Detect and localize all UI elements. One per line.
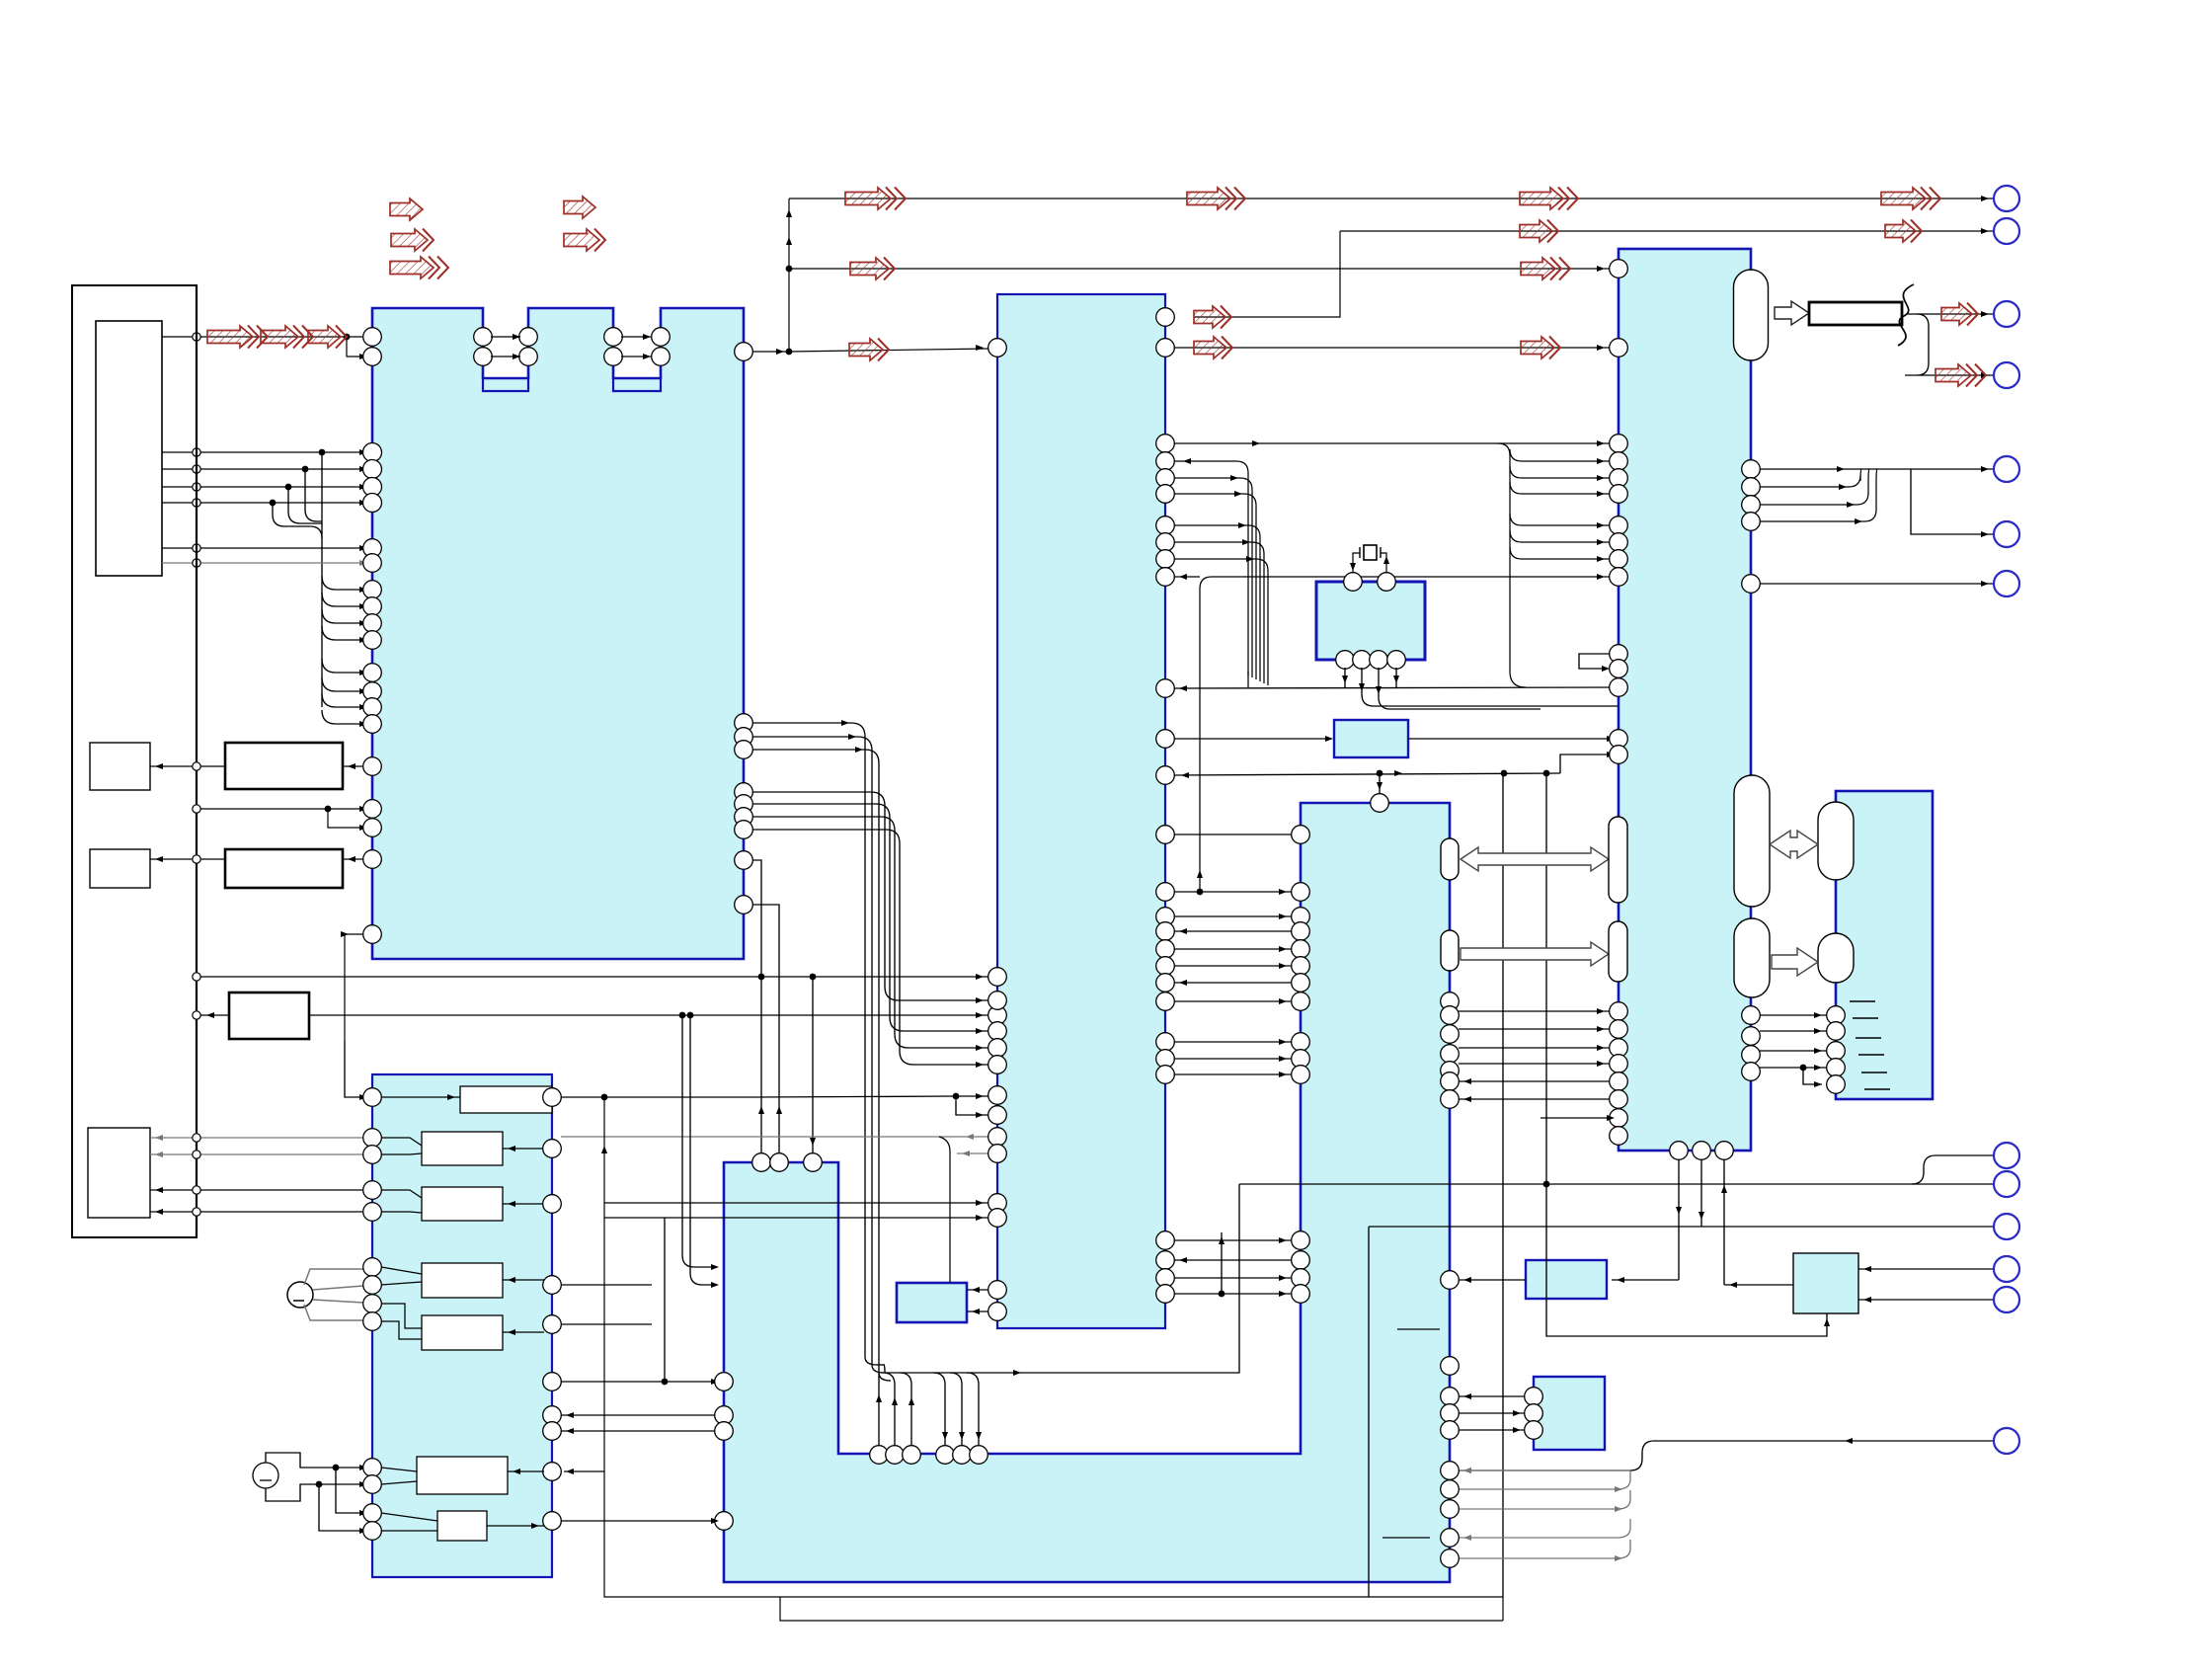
wire TP 1170/1199: [1239, 1155, 1994, 1187]
IC U1 servo/RF block body: [372, 308, 744, 959]
U3 left pins 662/677/696: [1610, 645, 1628, 697]
U2 left pins 989/1028: [988, 968, 1007, 1025]
U2 right pin 697: [1156, 679, 1175, 698]
bottom bus y1617: [564, 1097, 1503, 1597]
U1 right pins cluster1: [735, 714, 753, 759]
U1 left pins 819/838: [363, 800, 382, 837]
W6 wires: [381, 1468, 544, 1484]
AC source SG2: [253, 1453, 367, 1534]
U3 capsule right1: [1734, 775, 1770, 907]
echo fan to U1 group2/3: [322, 576, 367, 727]
U2 right bundle S-curves down: [1174, 458, 1268, 685]
U1 top pins pair1: [363, 328, 382, 366]
legend arrow L1: [390, 199, 423, 220]
U1 left pins group2: [363, 581, 382, 650]
U5 internal box W6: [417, 1457, 508, 1494]
U5-U4 mid wires: [561, 1285, 719, 1434]
bus arrow S1: [1520, 220, 1558, 243]
terminal TP8: [1994, 1143, 2019, 1168]
wires TP to U10: [1858, 1266, 1994, 1303]
U5 left pins SG1: [363, 1258, 382, 1331]
U2-U4 row 903: [1174, 891, 1292, 893]
U5 internal box W4: [422, 1263, 503, 1298]
U2 left pins 1306/1328: [988, 1281, 1007, 1321]
U3 right wire 591: [1760, 583, 1994, 585]
U3 left pins bundle: [1610, 435, 1628, 587]
U2 left pins 1151/1168: [988, 1128, 1007, 1163]
bus arrow V1: [849, 339, 889, 361]
cable out wires: [1905, 311, 1994, 378]
bus second line with elbow: [1340, 230, 1994, 232]
U4 notch pins: [870, 1446, 988, 1465]
bus arrow U1b: [1521, 258, 1570, 280]
legend arrow L4: [564, 197, 595, 218]
bus y783 horizontal: [1156, 752, 1615, 794]
wire U1 to B2 to B1: [150, 762, 363, 770]
U2 left wires 1218/1233: [601, 1146, 988, 1221]
U2 left pins 1109/1129: [988, 1086, 1007, 1125]
wire B5 chain row1028: [193, 1011, 988, 1019]
U1 cluster1 wires S-down: [752, 720, 891, 1381]
U3 right pins 1028-1085: [1742, 1006, 1761, 1081]
U1 left pins row5-6: [363, 539, 382, 573]
IC U8 small interface block body: [897, 1283, 967, 1322]
terminal TP7: [1994, 362, 2019, 388]
U5 right pins 1296-1490: [543, 1276, 562, 1481]
U1 cluster2 wires to U2 left: [752, 792, 988, 1068]
crystal Y1 symbol: [1350, 545, 1389, 573]
legend arrow L2: [391, 229, 434, 252]
terminal TP2: [1994, 218, 2019, 244]
IC U6 memory block body: [1836, 791, 1933, 1099]
U5 right pin 1111: [543, 1088, 562, 1107]
wires U4-U11: [1459, 1393, 1526, 1433]
wire 916 elbow down to U4: [752, 905, 779, 1153]
connector CN1 inner header: [96, 321, 162, 576]
gray arrow U3-U6 2: [1772, 948, 1818, 976]
IC U11 small block body: [1534, 1377, 1605, 1450]
U3 left bundle fork and branches: [1498, 443, 1610, 687]
wire TP 1242: [1369, 1227, 1994, 1597]
U2 left wire 1109 with branch: [755, 1093, 988, 1118]
U3 left pins 1132/1150: [1610, 1109, 1628, 1146]
vertical 771 to U4 pin: [760, 977, 762, 1153]
flat cable FFC1: [1809, 284, 1914, 346]
vertical 823 to U4 pin: [812, 977, 814, 1153]
U3 capsule left2: [1609, 921, 1627, 982]
U3 top-left pins: [1610, 260, 1628, 357]
U5 internal box W2: [422, 1132, 503, 1165]
U2 left pins 1013-1078: [988, 992, 1007, 1074]
bus third line: [789, 268, 1610, 270]
terminal TP9: [1994, 1171, 2019, 1197]
U3-U6 rows 1028-1098: [1760, 1012, 1827, 1087]
bus arrow T1: [845, 188, 906, 210]
bus fourth line U1-U2: [789, 349, 988, 352]
U1 right pin 916: [735, 896, 753, 914]
X1 bottom pin wires: [1342, 668, 1619, 709]
U1 left pins group1: [363, 443, 382, 513]
W4 W5 wires: [381, 1267, 544, 1339]
wire U7 right to U3: [1408, 738, 1610, 740]
IC U3 system controller body: [1619, 249, 1751, 1151]
block B3 filter box (thick): [225, 849, 343, 888]
notch1 bottom link: [483, 378, 528, 391]
U5 left pins SG2: [363, 1459, 382, 1541]
IC U10 small block body: [1793, 1253, 1858, 1313]
wire into W1 chain: [345, 1041, 755, 1100]
arrow at U2 out1: [1194, 306, 1231, 329]
U3 capsule left1: [1609, 817, 1627, 903]
U5 right pins 1163/1219: [543, 1140, 562, 1214]
U4 capsule P2: [1441, 930, 1459, 971]
U2-U4 rows 1055-1088: [1174, 1039, 1292, 1077]
arrow out2: [1935, 364, 1986, 387]
U3 left row584 wire: [1200, 577, 1610, 892]
IC U9 small block body: [1526, 1260, 1607, 1299]
U6 capsule left2: [1818, 933, 1854, 983]
block B2 filter box (thick): [225, 743, 343, 789]
U6 left pins: [1827, 1006, 1846, 1094]
bus fifth line U2-U3: [1165, 347, 1610, 349]
vertical x1523 long feedback: [1501, 770, 1508, 1597]
U1 right pin 871: [735, 851, 753, 870]
bus SDATA top: [789, 198, 1994, 199]
notch bus y1390 with riser x1255: [885, 1184, 1239, 1376]
group1 tap dots and vertical bundle: [270, 449, 326, 707]
notch2 bottom link: [613, 378, 661, 391]
U6 capsule left1: [1818, 802, 1854, 880]
legend arrow L5: [564, 229, 605, 252]
wire U10 bottom feed: [1546, 1184, 1830, 1336]
U2-U4 rows 1256-1310: [1174, 1232, 1292, 1297]
block B4 left small box: [90, 849, 150, 888]
arrow out1: [1941, 303, 1978, 326]
gray arrow U4-U3 right: [1461, 942, 1609, 966]
U5 internal box W1: [460, 1086, 552, 1113]
hatched arrow A1: [207, 326, 268, 349]
IC X1 crystal oscillator block body: [1316, 582, 1425, 660]
wire U10 left to vertical: [1724, 1284, 1793, 1286]
bus arrow T3: [1520, 188, 1578, 210]
U4 right pins 1014-1113: [1441, 993, 1460, 1109]
terminal TP6: [1994, 301, 2019, 327]
CN1 wires row5 row6: [162, 544, 367, 567]
U2 top-left pin: [988, 339, 1007, 357]
U4 right pins 1383-1448: [1441, 1357, 1460, 1440]
U11 left pins: [1525, 1388, 1543, 1440]
U5 internal box W5: [422, 1315, 503, 1350]
bus CN1-U2 row989: [197, 974, 988, 981]
notch1 arrows: [491, 334, 651, 359]
bus y696 under crystal: [1174, 687, 1619, 688]
wires U8 to U2: [967, 1287, 988, 1314]
white arrow into cable: [1775, 301, 1809, 325]
vertical x1566: [1543, 770, 1550, 1184]
U3 right bus to TP 476: [1760, 466, 1994, 537]
U4 left pins lower: [715, 1373, 734, 1531]
U1 notch1 pins: [474, 328, 538, 366]
wire U9 left to U4 pin: [1459, 1279, 1526, 1281]
U2-U4 rows 928-1014: [1174, 913, 1292, 1004]
U3 right pins mid: [1742, 460, 1761, 594]
wire 871 elbow to bus989: [752, 860, 761, 977]
U5 left pins B6 rows: [363, 1129, 382, 1222]
wire into U9 right: [1612, 1279, 1679, 1281]
U2-U3 top straight wire row449: [1174, 442, 1610, 444]
bus arrow T4: [1881, 188, 1940, 210]
B6 wires: [150, 1134, 363, 1216]
CN1 right-edge bus line: [196, 285, 197, 1237]
U5 left pin 1111: [363, 1088, 382, 1107]
U4 right pin 1296: [1441, 1271, 1460, 1290]
U2 top-right pins: [1156, 308, 1175, 357]
hatched arrow A2: [261, 326, 313, 349]
U2 right pins bundle: [1156, 435, 1175, 587]
X1 bottom pins: [1336, 651, 1406, 670]
U3 bottom pins: [1670, 1142, 1734, 1160]
IC U4 audio/decoder block body (U-shape): [724, 803, 1450, 1582]
U3 capsule right top: [1734, 270, 1769, 360]
U4 capsule P1: [1441, 838, 1459, 880]
block B6 connector box: [88, 1128, 150, 1218]
wire U5 out 1488 to U4: [561, 1520, 715, 1522]
wire U1 to B3 to B4: [150, 855, 363, 863]
IC U5 driver block body: [372, 1074, 552, 1577]
U3 left pin 764: [1610, 746, 1628, 764]
U4 right pins 1489-1578: [1441, 1462, 1460, 1568]
bottom bus y1641: [780, 1597, 1503, 1621]
U4 arm left pins: [1292, 826, 1310, 1304]
block B5 filter box (thick): [229, 993, 309, 1039]
terminal TP10: [1994, 1214, 2019, 1239]
U4-U3 rows 1024-1113: [1459, 1008, 1610, 1102]
wire U1 out to top bus riser: [744, 199, 789, 352]
terminal TP11: [1994, 1256, 2019, 1282]
U5 right pin 1540: [543, 1512, 562, 1531]
terminal TP12: [1994, 1287, 2019, 1312]
W2 W3 wires: [381, 1138, 544, 1213]
U2 right pin 748: [1156, 730, 1175, 749]
notch pin branches: [876, 1373, 982, 1446]
gray double arrow U3-U6: [1770, 831, 1818, 858]
gray double arrow U4-U3: [1461, 847, 1609, 871]
IC U2 DSP block body: [997, 294, 1165, 1328]
verticals to U4 pins 1283/1301: [679, 1012, 719, 1288]
CN1 data wires to U1 group1: [162, 448, 367, 507]
U1 notch2 pins: [604, 328, 671, 366]
U3 left pins 1024-1113: [1610, 1002, 1628, 1109]
U4 left pin wire 1399 junction: [662, 1218, 669, 1385]
U3 left pin 748: [1610, 730, 1628, 749]
wire CN1 to U1 top input: [162, 337, 372, 357]
bus arrow W1b: [1521, 337, 1560, 359]
U5 internal box W7: [437, 1511, 487, 1541]
block B1 left small box: [90, 743, 150, 790]
stub to 1132: [1540, 1117, 1610, 1119]
terminal TP13: [1994, 1428, 2019, 1454]
wire pair row 819/838: [193, 805, 367, 831]
terminal TP5: [1994, 571, 2019, 596]
U1 left pins group3: [363, 664, 382, 734]
U4 top pins: [752, 1153, 823, 1172]
wire U1 bottom-left pin feed: [345, 934, 363, 1041]
U3 capsule right2: [1734, 918, 1770, 997]
wire TP 1459 to U4: [1459, 1438, 1994, 1473]
U5 internal box W3: [422, 1187, 503, 1221]
AC source SG1: [287, 1269, 363, 1320]
connector CN1 outer frame: [72, 285, 197, 1237]
U1 right pins cluster2: [735, 783, 753, 839]
W7 wires: [381, 1513, 544, 1531]
NC dashes U4 right: [1382, 1329, 1440, 1538]
IC U7 reset block body: [1334, 720, 1408, 757]
U2 left gray wires 1151/1168: [561, 1134, 988, 1283]
terminal TP1: [1994, 186, 2019, 211]
bus arrow W1a: [1194, 337, 1232, 359]
U6 internal dashes: [1850, 1001, 1890, 1089]
hatched arrow A3: [308, 326, 347, 349]
U2-U4 row 845: [1174, 834, 1292, 835]
terminal TP4: [1994, 521, 2019, 547]
bus arrow T2: [1187, 188, 1245, 210]
U2 left pins 1218/1233: [988, 1194, 1007, 1228]
U2 right pins lower: [1156, 826, 1175, 1304]
wire into U7 left: [1165, 738, 1328, 740]
bus arrow S2: [1885, 220, 1922, 243]
left bundle verticals join: [1247, 672, 1249, 687]
bus arrow U1a: [850, 258, 895, 280]
U3 left pins 662-677 loop: [1579, 654, 1610, 672]
X1 top pins: [1344, 573, 1396, 592]
U1 left pin B2 row: [363, 757, 382, 776]
U1 left pin bottom: [363, 925, 382, 944]
gray cascade U4 lower-right: [1459, 1468, 1630, 1561]
legend arrow L3: [390, 257, 448, 279]
U3 bottom verticals: [1676, 1159, 1727, 1285]
U1 left pin B3 row: [363, 850, 382, 869]
U4 arm top pin: [1371, 794, 1389, 813]
terminal TP3: [1994, 456, 2019, 482]
